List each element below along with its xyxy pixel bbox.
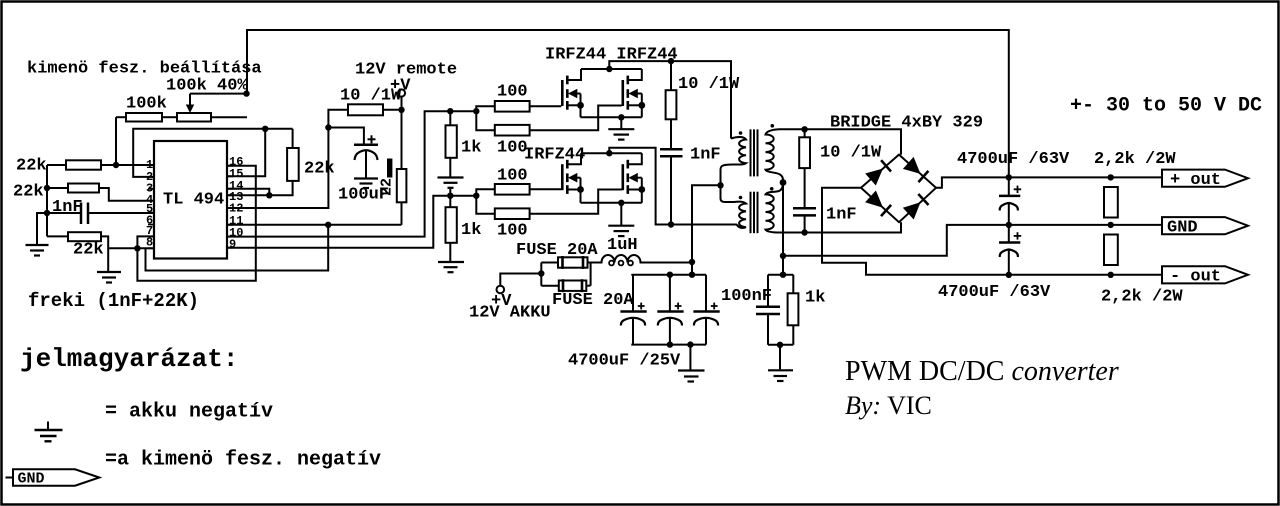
connector GND legend [13,469,99,485]
wire 100k row [116,116,126,118]
transformer T1 core [751,129,758,233]
node cap bank mid top [667,272,673,278]
node fuse junction [538,270,544,276]
wire sec center tap down [782,183,784,256]
svg-text:4700uF /63V: 4700uF /63V [957,150,1070,169]
wire C1 leads [47,212,81,214]
op-amp U1 TL494 box [154,141,227,259]
wire pin15 [227,129,265,177]
wire upper supply to primary top [609,61,731,138]
transformer secondary upper winding [766,129,784,182]
bridge rectifier diamond [861,155,936,223]
transformer primary lower winding [721,185,747,228]
capacitor 4700uF/25V C4 [620,275,646,345]
wire snubber top [670,61,672,90]
wire 100uF branch [328,128,364,145]
svg-text:1k: 1k [461,139,481,158]
node lower bus junction [618,200,624,206]
svg-text:10 /1W: 10 /1W [678,75,740,94]
transformer phase dot primary upper [739,131,743,135]
wire Rg3 to gate [530,188,562,190]
svg-text:GND: GND [18,471,45,488]
diode D3 (left-bottom) [865,191,891,217]
transformer phase dot primary lower [739,196,743,200]
capacitor 100nF C7 [756,275,780,345]
svg-text:1nF: 1nF [52,198,83,217]
wire R1 leads [47,164,66,166]
wire upper source bus [581,116,642,118]
node gnd col2 [1108,222,1114,228]
diode D2 (top-right) [903,157,929,182]
svg-text:9: 9 [229,237,236,251]
transistor Q1 IRFZ44 [562,69,584,117]
resistor 100 Rg3 [495,184,530,195]
wire R8 to C [670,119,672,148]
wire secondary top to bridge [779,129,901,154]
trimmer 22 mark [387,159,392,178]
transistor Q4 IRFZ44 [623,153,645,203]
svg-text:8: 8 [146,236,153,250]
wire pin12 to 10/1W [227,110,348,208]
wire center tap feed [692,185,721,274]
capacitor 4700uF/25V C5 [657,275,683,345]
wire akku to fuses [500,274,541,286]
svg-text:100: 100 [497,167,528,186]
wire +V stub [401,97,403,110]
svg-text:100: 100 [497,83,528,102]
100uF plus sign [368,138,376,140]
legend ground symbol [35,422,63,442]
capacitor 1nF C2 [660,148,683,151]
potentiometer arrow [189,94,191,105]
node wiper junction [243,90,249,96]
node cap rail feed junction [689,272,695,278]
fuse F2 [541,279,590,292]
svg-text:22k: 22k [13,183,44,202]
resistor 100 Rg2 [495,125,530,136]
svg-text:4700uF /63V: 4700uF /63V [938,283,1051,302]
wire bridge - output [822,188,1162,275]
node +out col1 [1006,174,1012,180]
wire left rail x47 [46,165,48,236]
resistor 1k R6 [446,125,457,158]
transformer primary upper winding [721,137,747,185]
resistor 1k R10 [788,275,799,345]
svg-text:FUSE 20A: FUSE 20A [552,291,634,310]
svg-text:4700uF /25V: 4700uF /25V [568,352,681,371]
wire fuse left tie [540,263,542,286]
wire pin2 feedback loop [133,129,292,177]
wire R5 right lead [383,109,402,111]
wire GND mid path [783,225,1162,256]
trimmer 22 body [397,169,407,202]
node pin1 junction [113,162,119,168]
wire pot wiper [190,93,247,95]
node +V branch junction [325,124,331,130]
resistor 22k R3 [68,232,101,241]
svg-text:100uF: 100uF [338,186,389,205]
node 100nF top junction [780,272,786,278]
svg-text:TL 494: TL 494 [163,191,224,210]
pin stubs [148,165,233,248]
svg-text:10 /1W: 10 /1W [340,87,402,106]
node upper rail junction [606,66,612,72]
node GND mid junction [780,253,786,259]
node cap bank mid bottom [667,341,673,347]
node lower rail junction [606,150,612,156]
wire 22 trimmer column [401,110,403,169]
diode D1 (left-top) [865,160,891,185]
wire pin14 [227,189,269,196]
resistor 10/1W R5 [348,104,383,115]
resistor 1k R7 [446,207,457,243]
resistor 22k R2 [68,184,99,193]
svg-text:22k: 22k [16,157,47,176]
wire 22k R4 top [292,129,294,148]
svg-text:1nF: 1nF [826,206,857,225]
wire R2 leads [47,187,68,189]
connector - out [1162,266,1248,283]
transformer secondary lower winding [766,183,784,233]
connector GND [1162,217,1248,234]
ground G1 [37,213,47,244]
svg-text:GND: GND [1167,219,1198,238]
wire 100nF bottom rail [768,344,793,346]
node snubber2 bottom junction [801,229,807,235]
resistor 10/1W R8 [666,90,677,119]
wire lower rail to primary bottom [609,148,737,225]
wire lower gate branches [476,189,495,195]
wire 100nF block feed [782,256,784,275]
wire top rail [247,30,1009,177]
node pin13-14 junction [266,192,272,198]
wire Rg4 to gate [530,190,622,214]
wire Rg2 to gate [530,106,622,131]
node 100nF gnd junction [777,342,783,348]
svg-text:PWM DC/DC converter: PWM DC/DC converter [845,356,1119,387]
ground G2 [107,248,109,271]
node +out col2 [1108,174,1114,180]
node cap bank gnd [687,341,693,347]
resistor 100 Rg4 [495,208,530,219]
resistor 100 Rg1 [495,101,530,112]
wire secondary bottom to bridge [780,222,901,232]
resistor 100k [126,113,162,122]
svg-text:22k: 22k [73,241,104,260]
ground G4 [438,176,464,178]
resistor 2,2k R11 [1104,187,1118,218]
node secondary center tap [780,179,787,186]
svg-text:100: 100 [497,222,528,241]
node 1nF junction [44,210,50,216]
transistor Q3 IRFZ44 [562,153,584,203]
wire pin10 to upper gates [227,111,476,236]
node -out col2 [1108,272,1114,278]
capacitor 100uF plate [354,143,378,146]
svg-text:22k: 22k [304,160,335,179]
svg-text:1uH: 1uH [607,236,638,255]
svg-text:1k: 1k [805,289,825,308]
svg-text:= akku negatív: = akku negatív [105,401,273,424]
resistor 2,2k R12 [1104,235,1118,266]
node R2 junction [44,185,50,191]
transformer phase dot secondary lower [770,187,774,191]
wire 22 to pin11 [401,202,403,225]
node primary center tap [717,182,723,188]
node C2 junction [668,221,674,227]
node upper bus junction [618,114,624,120]
svg-text:freki (1nF+22K): freki (1nF+22K) [28,290,199,312]
node snubber top junction [668,58,674,64]
node -out col1 [1006,272,1012,278]
wire GND stub [6,477,14,479]
wire bridge + output [936,177,1162,187]
capacitor 4700uF/63V C9 [999,225,1021,275]
ground G8 [689,345,691,370]
svg-text:1nF: 1nF [690,146,721,165]
svg-text:100k: 100k [126,95,167,114]
node +V junction [398,107,404,113]
wire pin11 [227,224,402,226]
node pin15 top junction [262,126,268,132]
svg-text:=a kimenö fesz. negatív: =a kimenö fesz. negatív [105,449,381,472]
svg-text:- out: - out [1170,268,1221,287]
wire C3 bottom [804,215,806,232]
ground G9 [779,345,781,370]
node 1k R6 top [447,108,453,114]
terminal 12V AKKU [497,286,505,294]
svg-text:jelmagyarázat:: jelmagyarázat: [20,344,238,374]
ground G3 [354,177,378,179]
node upper gate split [473,108,479,114]
wire R9 leads [804,129,806,137]
wire pin8-pin11 loop [146,225,329,271]
wire pin9 to lower gates [227,196,476,248]
svg-text:IRFZ44: IRFZ44 [524,146,585,165]
inductor 1uH [591,255,692,263]
wire fuse right tie [590,263,592,286]
wire cap bank rail [631,274,706,276]
ground G6 [620,117,622,128]
resistor 22k R4 [287,148,299,181]
capacitor 4700uF/25V C6 [693,275,719,345]
node inductor out junction [689,259,695,265]
capacitor 1nF C1 [80,203,83,225]
wire 1k R7 leads [449,196,451,208]
svg-text:12V AKKU: 12V AKKU [469,304,551,323]
connector + out [1162,170,1248,187]
wire G4 to lower feed [449,189,451,196]
node gnd col1 [1006,222,1012,228]
wire cap bank bottom rail [631,344,706,346]
terminal +V circle [398,89,405,96]
svg-text:2,2k /2W: 2,2k /2W [1094,150,1176,169]
transformer phase dot secondary upper [771,124,775,128]
svg-text:10 /1W: 10 /1W [820,144,882,163]
diode D4 (bottom-right) [903,194,929,220]
wire pin13 [227,181,293,195]
wire pin16 loop [137,166,255,281]
capacitor 4700uF/63V C8 [999,177,1021,225]
node pin8 junction [134,245,140,251]
wire lower drain rail [581,152,642,154]
wire 100nF top rail [768,274,793,276]
svg-text:100nF: 100nF [721,287,772,306]
ground G7 [620,203,622,225]
resistor 22k R1 [66,160,101,169]
svg-text:+ out: + out [1170,171,1221,190]
wire upper drain rail [581,68,642,70]
capacitor 1nF C3 [793,207,816,210]
svg-text:2,2k /2W: 2,2k /2W [1101,288,1183,307]
svg-text:By: VIC: By: VIC [845,391,932,420]
fuse F1 [541,256,590,269]
wire 1k R6 leads [449,111,451,125]
transistor Q2 IRFZ44 [623,69,645,117]
svg-text:+- 30 to 50 V DC: +- 30 to 50 V DC [1070,95,1262,118]
wire C2 bottom [670,156,672,224]
wire Rg1 to gate [530,105,562,107]
resistor 10/1W R9 [799,137,810,168]
svg-text:1k: 1k [461,221,481,240]
ground G5 [438,261,464,263]
wire lower source bus [581,202,642,204]
node lower gate split [473,193,479,199]
node 1k R7 top [447,193,453,199]
svg-text:BRIDGE 4xBY 329: BRIDGE 4xBY 329 [830,114,983,133]
wire upper gate branches [476,106,495,111]
capacitor 100uF curved plate [355,150,378,160]
wire R3 leads [47,235,68,237]
node snubber2 top junction [801,126,807,132]
wire pin7 stub [137,236,154,248]
potentiometer 100k 40% body [177,113,211,122]
wire left rail x116 [115,117,117,165]
wire 100uF stem [365,151,367,178]
node pin11 junction [325,222,331,228]
